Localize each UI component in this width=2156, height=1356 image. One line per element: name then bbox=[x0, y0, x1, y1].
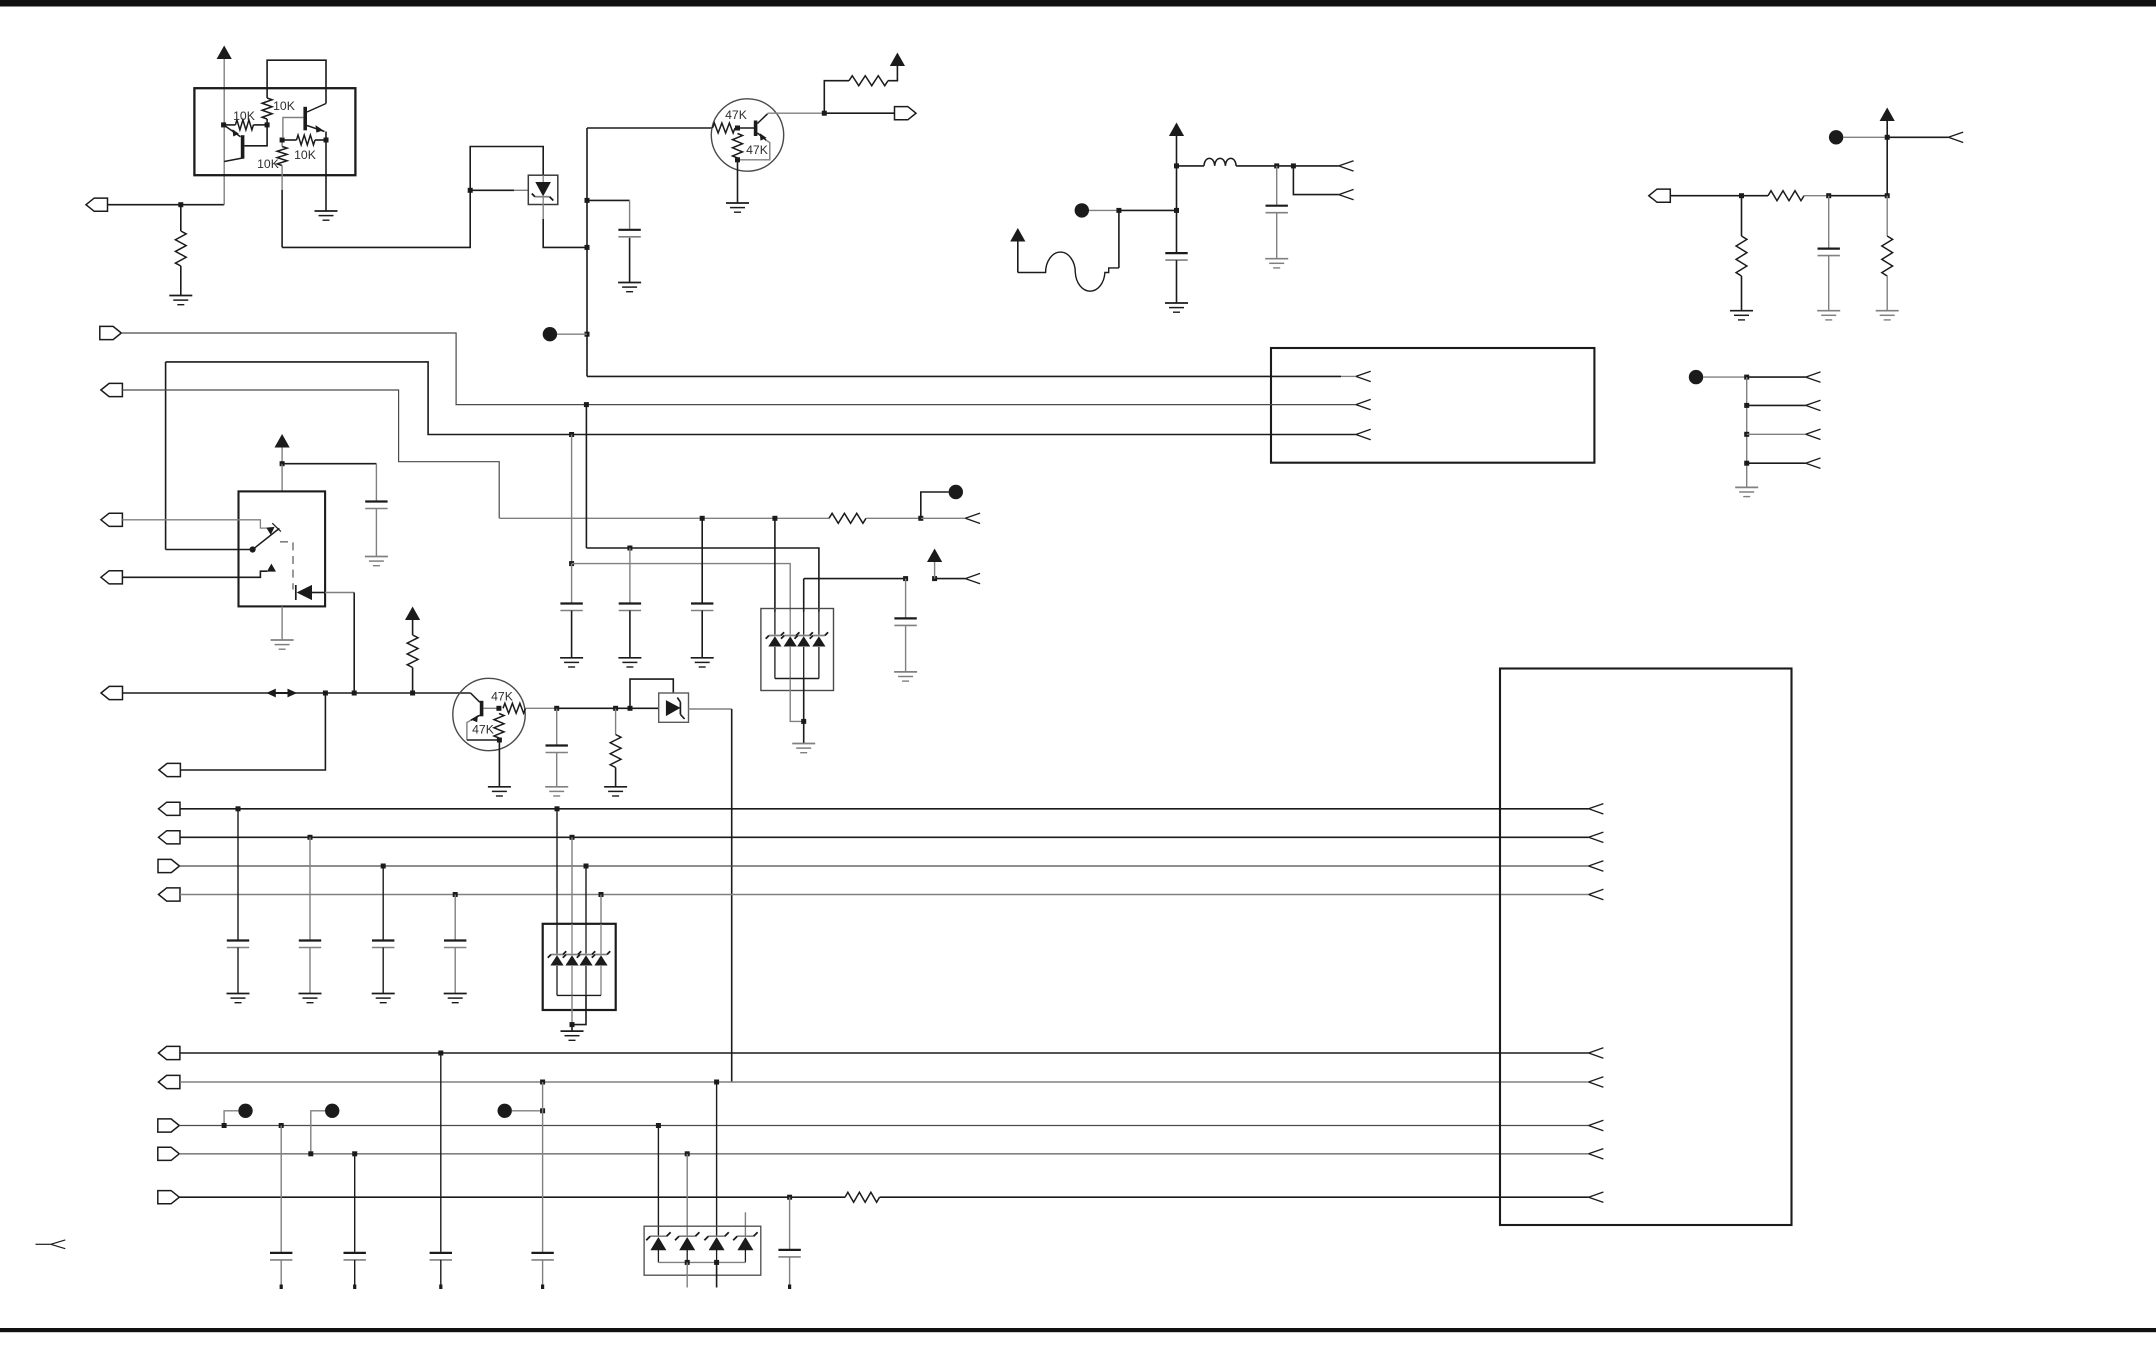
node rowB1-cap bbox=[438, 1051, 443, 1056]
node N11-A bbox=[918, 516, 923, 521]
wire C18 top lead bbox=[542, 1082, 544, 1252]
wire D3 out bbox=[688, 708, 731, 710]
ground GND23 bbox=[372, 994, 395, 1003]
wire VCC3 stem bbox=[1176, 136, 1178, 166]
svg-text:10K: 10K bbox=[233, 109, 255, 123]
wire row B2 bbox=[180, 1081, 1589, 1083]
node Q2-E bbox=[735, 157, 740, 162]
wire R4 to net bbox=[281, 166, 283, 191]
wire U3 diode2 top lead bbox=[789, 612, 791, 635]
node bus2-A bbox=[584, 402, 589, 407]
ground GND22 bbox=[299, 994, 322, 1003]
resistor R8 47K bbox=[733, 134, 743, 159]
node J-P1 bbox=[178, 202, 183, 207]
wire Q2 collector out bbox=[768, 112, 825, 114]
port arrow J2-A2 bbox=[1589, 832, 1604, 842]
node feed-A bbox=[627, 546, 632, 551]
node rowA3-cap bbox=[381, 864, 386, 869]
node N4-A bbox=[1274, 163, 1279, 168]
svg-text:10K: 10K bbox=[273, 99, 295, 113]
node Q2-B bbox=[735, 126, 740, 131]
node C18 stub tip bbox=[541, 1285, 544, 1290]
wire C6 top lead bbox=[556, 708, 558, 744]
zener diode U5-D3 bbox=[704, 1232, 728, 1250]
wire row A2 bbox=[180, 836, 1589, 838]
svg-text:10K: 10K bbox=[257, 157, 279, 171]
wire LED out gray bbox=[325, 592, 354, 594]
wire U3 diode3 bottom lead bbox=[803, 647, 805, 679]
wire N1 loop top bbox=[470, 147, 543, 191]
node rowA1-cap bbox=[236, 806, 241, 811]
power VCC1 arrow bbox=[217, 46, 232, 60]
label R15 47K bbox=[472, 723, 494, 737]
wire row A4 bbox=[180, 894, 1589, 896]
wire U3 diode4 bottom lead bbox=[818, 647, 820, 679]
connector P18 bbox=[158, 1191, 180, 1204]
ground GND18 bbox=[691, 658, 714, 667]
connector P9 bbox=[159, 763, 181, 776]
node N2-C bbox=[585, 332, 590, 337]
wire C2 top lead bbox=[1276, 166, 1278, 205]
wire U3 gnd drop A bbox=[790, 679, 804, 722]
port arrow J2-A3 bbox=[1589, 861, 1604, 871]
jumper wave W1 bbox=[1018, 252, 1119, 291]
wire N13 to D3 bbox=[616, 707, 659, 709]
wire d3 feed line bbox=[804, 578, 906, 580]
component box U1 bbox=[194, 88, 355, 175]
capacitor C2 bbox=[1266, 206, 1288, 213]
wire U3 gnd drop B bbox=[803, 679, 805, 722]
wire Q3-E to gnd bbox=[498, 740, 500, 786]
wire row B1 bbox=[180, 1052, 1589, 1054]
port arrow J2-B5 bbox=[1589, 1192, 1604, 1202]
node N3-A bbox=[1174, 163, 1179, 168]
capacitor C12 bbox=[299, 941, 321, 948]
ground GND11 bbox=[365, 557, 388, 566]
wire U5 diode3 feed bbox=[716, 1082, 718, 1237]
wire feed d1 bbox=[774, 518, 776, 612]
power VCC7 arrow bbox=[405, 607, 420, 621]
transistor circle Q3 bbox=[453, 678, 525, 750]
wire feed d2 bbox=[572, 564, 791, 612]
connector P5 bbox=[101, 383, 123, 396]
wire 10K R2 top lead bbox=[266, 88, 268, 98]
wire U5 diode4 bottom lead bbox=[744, 1248, 746, 1262]
wire U5 diode3 bottom lead bbox=[716, 1248, 718, 1262]
capacitor C4 bbox=[1818, 249, 1840, 256]
wire bus1 to J1 bbox=[587, 375, 1341, 377]
node rowA2-z bbox=[570, 835, 575, 840]
resistor R14 47K bbox=[503, 703, 526, 713]
svg-text:47K: 47K bbox=[746, 143, 768, 157]
wire C9 bottom lead bbox=[701, 611, 703, 658]
node N7-A bbox=[1885, 193, 1890, 198]
svg-text:10K: 10K bbox=[294, 148, 316, 162]
wire Q2-E to gnd bbox=[737, 160, 739, 203]
node C16 stub tip bbox=[353, 1285, 356, 1290]
wire cap C7 hang bbox=[571, 435, 573, 564]
wire N1 to D1 bbox=[470, 189, 514, 191]
port arrow IN1 bbox=[1339, 161, 1354, 171]
wire U5 diode2 bottom lead bbox=[686, 1248, 688, 1262]
wire U3 anode rail bbox=[775, 678, 819, 680]
wire bus2 drop bbox=[585, 405, 587, 548]
wire LED anode out bbox=[312, 592, 325, 594]
node N12-A bbox=[280, 461, 285, 466]
wire C7 bottom lead bbox=[571, 611, 573, 658]
wire bus3 bbox=[166, 362, 1356, 435]
wire R9 bottom lead bbox=[1741, 276, 1743, 310]
node rowA2-cap bbox=[308, 835, 313, 840]
wire U2 bottom pin bbox=[281, 606, 283, 639]
wire ctl to P9 bbox=[180, 693, 325, 770]
port arrow J1-3 bbox=[1356, 429, 1371, 439]
node N13-C bbox=[628, 706, 633, 711]
wire C15 stub bbox=[280, 1260, 282, 1288]
wire C1 top lead bbox=[629, 200, 631, 228]
wire bus1 tail bbox=[1341, 375, 1356, 377]
node N14-A bbox=[903, 576, 908, 581]
ground GND15 bbox=[604, 787, 627, 796]
resistor R15 47K bbox=[494, 714, 504, 739]
zener array box U3 bbox=[761, 609, 834, 691]
capacitor C19 bbox=[778, 1250, 800, 1257]
wire C10 bottom lead bbox=[905, 625, 907, 671]
wire U5 diode1 bottom lead bbox=[657, 1248, 659, 1262]
connector P14 bbox=[158, 1046, 180, 1059]
node N6-A bbox=[1885, 135, 1890, 140]
label R5 10K bbox=[294, 148, 316, 162]
IC box J2 bbox=[1500, 669, 1792, 1226]
wire R9 top lead bbox=[1741, 196, 1743, 236]
capacitor C11 bbox=[227, 941, 249, 948]
wire row B5 right bbox=[880, 1196, 1589, 1198]
wire C10 top lead bbox=[905, 579, 907, 618]
wire N10 branch3 bbox=[1747, 433, 1806, 435]
wire R12 tail bbox=[866, 517, 921, 519]
resistor R9 bbox=[1736, 236, 1747, 276]
ground GND24 bbox=[444, 994, 467, 1003]
node C19 stub tip bbox=[788, 1285, 791, 1290]
resistor R2 10K bbox=[262, 98, 272, 119]
connector P10 bbox=[159, 802, 181, 815]
capacitor C10 bbox=[894, 618, 916, 625]
node rowA4-cap bbox=[453, 892, 458, 897]
svg-text:47K: 47K bbox=[725, 108, 747, 122]
resistor R7 bbox=[849, 76, 888, 86]
node rowB5-cap bbox=[787, 1195, 792, 1200]
power VCC4 arrow bbox=[1010, 228, 1025, 242]
wire C5 top lead bbox=[375, 464, 377, 501]
label R8 47K bbox=[746, 143, 768, 157]
wire U5 stub A bbox=[686, 1262, 688, 1287]
wire R10 left lead bbox=[1742, 195, 1769, 197]
wire U4 diode1 top lead bbox=[556, 924, 558, 954]
ground GND13 bbox=[488, 787, 511, 796]
ground GND16 bbox=[560, 658, 583, 667]
node B3-hook bbox=[222, 1123, 227, 1128]
wire U4 anode rail bbox=[557, 994, 601, 996]
node U5-G1 bbox=[685, 1260, 690, 1265]
ground GND14 bbox=[545, 787, 568, 796]
zener diode U5-D2 bbox=[675, 1232, 699, 1250]
wire U3 diode3 top lead bbox=[803, 612, 805, 635]
wire C4 top lead bbox=[1828, 196, 1830, 248]
connector P3 bbox=[1649, 189, 1671, 202]
wire Q1b emitter down bbox=[325, 132, 327, 141]
ground GND25 bbox=[561, 1031, 584, 1040]
wire U3 diode1 top lead bbox=[774, 612, 776, 635]
node N13-B bbox=[613, 706, 618, 711]
port arrow IN3 bbox=[1948, 132, 1963, 142]
node Q2-C bbox=[822, 111, 827, 116]
wire Q3 base lead bbox=[483, 707, 499, 709]
wire U4 diode2 bottom lead bbox=[571, 966, 573, 996]
zener diode U3-D4 bbox=[810, 632, 828, 646]
wire C19 stub bbox=[789, 1257, 791, 1288]
ground GND4 bbox=[726, 203, 749, 212]
capacitor C9 bbox=[691, 604, 713, 611]
transistor Q1b (NPN) bbox=[303, 104, 326, 133]
wire U3 gnd stub bbox=[803, 721, 805, 743]
wire D3 bypass loop bbox=[630, 679, 673, 708]
wire C13 top lead bbox=[382, 866, 384, 940]
wire R4 net down bbox=[281, 190, 283, 247]
relay U2 bottom contact bbox=[267, 564, 276, 572]
node N13-A bbox=[554, 706, 559, 711]
wire C14 bottom lead bbox=[454, 948, 456, 994]
wire pole from left bbox=[166, 549, 250, 551]
wire C4 bottom lead bbox=[1828, 256, 1830, 311]
node dot ND3 bbox=[1829, 130, 1843, 144]
wire U4 diode4 top lead bbox=[600, 924, 602, 954]
wire U4 diode2 top lead bbox=[571, 924, 573, 954]
wire row B5 left bbox=[179, 1196, 845, 1198]
wire R16 bottom lead bbox=[615, 768, 617, 787]
node feed-B bbox=[569, 561, 574, 566]
wire row B4 bbox=[179, 1153, 1588, 1155]
transistor Q3 (NPN) bbox=[471, 693, 484, 722]
wire U4 diode4 bottom lead bbox=[600, 966, 602, 996]
wire L1 to node bbox=[1236, 165, 1277, 167]
transistor Q1a (PNP) bbox=[224, 125, 245, 162]
wire D1 left pin bbox=[514, 189, 529, 191]
node N4-B bbox=[1291, 163, 1296, 168]
wire bus4 bbox=[122, 390, 499, 518]
node dot ND6 bbox=[238, 1104, 252, 1118]
wire net N1 bottom bbox=[282, 190, 470, 247]
wire N2 cap branch bbox=[587, 199, 630, 201]
label R4 10K bbox=[257, 157, 279, 171]
node dot ND8 bbox=[498, 1104, 512, 1118]
resistor R5 10K bbox=[297, 135, 316, 145]
zener array box U5 bbox=[644, 1226, 761, 1275]
ground GND20 bbox=[894, 672, 917, 681]
node U1-A bbox=[221, 122, 226, 127]
node bus4-A bbox=[700, 516, 705, 521]
wire VCC4 stem bbox=[1017, 242, 1019, 273]
connector P4 bbox=[100, 326, 122, 339]
node bus3-A bbox=[569, 432, 574, 437]
wire U5 stub B bbox=[716, 1262, 718, 1287]
port arrow J2-B1 bbox=[1589, 1048, 1604, 1058]
capacitor C16 bbox=[344, 1253, 366, 1260]
wire U1 pin2 down bbox=[281, 140, 283, 147]
node C17 stub tip bbox=[439, 1285, 442, 1290]
wire C12 top lead bbox=[309, 837, 311, 939]
node dot ND5 bbox=[949, 485, 963, 499]
wire VCC1 stem bbox=[223, 59, 225, 205]
wire C16 top lead bbox=[354, 1154, 356, 1252]
wire C6 bottom lead bbox=[556, 753, 558, 787]
port arrow IN5 bbox=[1806, 400, 1821, 410]
wire N6 vertical bbox=[1886, 137, 1888, 195]
wire Q1b emitter to gnd bbox=[325, 140, 327, 211]
node rowB2-cap bbox=[540, 1080, 545, 1085]
node dot ND4 bbox=[1689, 370, 1703, 384]
capacitor C8 bbox=[619, 604, 641, 611]
IC box J1 bbox=[1271, 348, 1594, 463]
port arrow IN4 bbox=[1806, 372, 1821, 382]
wire P7 to contact bbox=[122, 571, 267, 577]
capacitor C1 bbox=[618, 230, 640, 237]
port arrow IN8 bbox=[965, 513, 980, 523]
wire N4 to port bbox=[1293, 165, 1338, 167]
label R2 10K bbox=[273, 99, 295, 113]
port arrow J1-1 bbox=[1356, 371, 1371, 381]
connector P6 bbox=[101, 513, 123, 526]
wire feed d4 bbox=[586, 548, 819, 612]
wire C3 bottom lead bbox=[1176, 260, 1178, 302]
wire ND1 stub bbox=[557, 333, 587, 335]
wire Q1b base link bbox=[283, 118, 304, 139]
connector P2 bbox=[895, 107, 917, 120]
wire C8 top lead bbox=[629, 548, 631, 603]
wire C11 top lead bbox=[237, 809, 239, 940]
wire U4 diode3 bottom lead bbox=[585, 966, 587, 996]
connector P1 bbox=[86, 198, 108, 211]
wire N13 to R16 bbox=[557, 707, 616, 709]
wire N3 to L1 bbox=[1177, 165, 1205, 167]
resistor R1 bbox=[175, 231, 186, 266]
resistor R4 10K bbox=[277, 147, 287, 166]
wire R16 top lead bbox=[615, 708, 617, 734]
wire U5 diode1 feed bbox=[657, 1126, 659, 1237]
node U3-G bbox=[801, 719, 806, 724]
node N8-A bbox=[1739, 193, 1744, 198]
ground GND17 bbox=[618, 658, 641, 667]
power VCC8 arrow bbox=[927, 549, 942, 563]
wire R3 right lead bbox=[253, 124, 267, 126]
wire R11 top lead bbox=[1886, 196, 1888, 236]
node rowA3-z bbox=[584, 864, 589, 869]
capacitor C6 bbox=[546, 746, 568, 753]
node C15 stub tip bbox=[280, 1285, 283, 1290]
node N2-A bbox=[585, 198, 590, 203]
wire Q2-C up branch bbox=[824, 81, 849, 114]
node rowB4-z bbox=[685, 1151, 690, 1156]
wire P6 to contact bbox=[122, 520, 267, 528]
wire R3 left lead bbox=[224, 124, 236, 126]
node N5-A bbox=[1116, 208, 1121, 213]
wire C13 bottom lead bbox=[382, 948, 384, 994]
zener diode U4-D4 bbox=[592, 951, 610, 965]
relay U2 actuator dashes bbox=[280, 542, 293, 590]
power VCC3 arrow bbox=[1169, 123, 1184, 137]
wire N2 to Q2 base bbox=[587, 127, 713, 129]
node U1-D bbox=[324, 138, 329, 143]
wire Q2 base lead bbox=[735, 127, 754, 129]
wire R5 left lead bbox=[282, 139, 296, 141]
wire U3 diode2 bottom lead bbox=[789, 647, 791, 679]
wire VCC8 stem bbox=[934, 562, 936, 579]
ground GND10 bbox=[1735, 487, 1758, 496]
wire N10 branch2 bbox=[1747, 404, 1806, 406]
node ctl-B bbox=[352, 691, 357, 696]
power VCC2 arrow bbox=[890, 53, 905, 67]
wire d3 drop bbox=[803, 579, 805, 612]
ground GND5 bbox=[1265, 259, 1288, 268]
wire N12 into U2 bbox=[281, 464, 283, 492]
wire Q1a base link bbox=[244, 125, 267, 146]
wire ND3 stub bbox=[1843, 136, 1887, 138]
wire ND8 hook bbox=[512, 1110, 543, 1112]
zener diode U5-D4 bbox=[733, 1232, 757, 1250]
node rowA4-z bbox=[599, 892, 604, 897]
connector P13 bbox=[159, 888, 181, 901]
wire C17 top lead bbox=[440, 1053, 442, 1252]
zener diode U3-D2 bbox=[781, 632, 799, 646]
wire U4 diode1 feed bbox=[556, 809, 558, 924]
port arrow J2-B4 bbox=[1589, 1149, 1604, 1159]
wire R7 to VCC2 bbox=[888, 66, 897, 81]
page edge mark bbox=[36, 1240, 66, 1249]
relay U2 top contact bbox=[266, 527, 274, 535]
wire D1 bottom pin bbox=[542, 205, 544, 220]
port arrow J2-B2 bbox=[1589, 1077, 1604, 1087]
connector P7 bbox=[101, 571, 123, 584]
label R3 10K bbox=[233, 109, 255, 123]
power VCC6 arrow bbox=[275, 434, 290, 448]
relay U2 blade bbox=[253, 523, 281, 549]
wire Q3 emitter loop bbox=[467, 720, 471, 740]
node dot ND7 bbox=[325, 1104, 339, 1118]
ground GND3 bbox=[618, 283, 641, 292]
inductor L1 bbox=[1204, 158, 1236, 166]
wire R14 out bbox=[526, 707, 557, 709]
port arrow J2-A1 bbox=[1589, 804, 1604, 814]
wire Q2 emitter loop bbox=[738, 140, 770, 160]
capacitor C18 bbox=[531, 1253, 553, 1260]
node U5-G2 bbox=[714, 1260, 719, 1265]
wire R13 to VCC7 bbox=[412, 620, 414, 635]
node bus4-B bbox=[772, 516, 777, 521]
node Q3-B bbox=[496, 706, 501, 711]
wire bus2 bbox=[121, 333, 1356, 405]
wire U5 anode rail bbox=[658, 1261, 745, 1263]
wire Q3 emitter bottom bbox=[467, 739, 500, 741]
resistor R11 bbox=[1882, 236, 1893, 276]
capacitor C5 bbox=[365, 502, 387, 509]
wire U5 diode4 stub feed bbox=[744, 1212, 746, 1236]
capacitor C3 bbox=[1165, 253, 1187, 260]
wire U4 diode1 bottom lead bbox=[556, 966, 558, 996]
wire U5 diode2 feed bbox=[686, 1154, 688, 1237]
wire D1 to main vertical bbox=[543, 219, 587, 247]
wire VCC5 stem bbox=[1886, 121, 1888, 137]
wire Q2-C to P2 bbox=[824, 112, 894, 114]
wire U4 diode3 top lead bbox=[585, 924, 587, 954]
